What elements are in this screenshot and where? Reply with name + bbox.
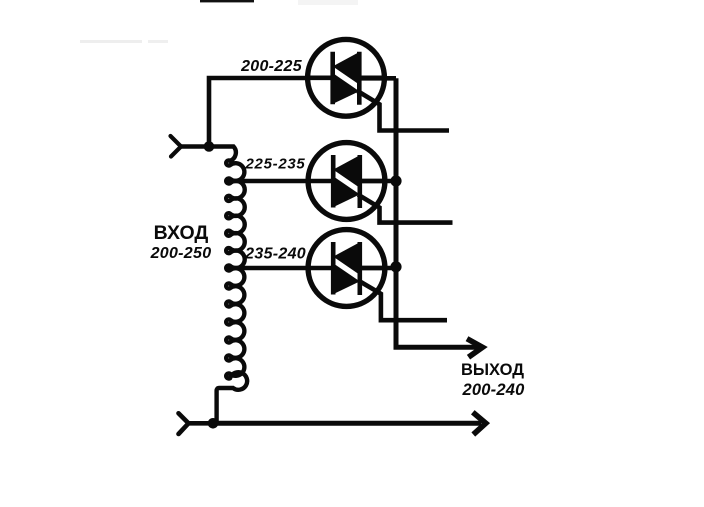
wire: node A up and right to triac VS1 (200-225 tap) (209, 78, 310, 147)
transformer winding (autotransformer T1) (209, 147, 247, 424)
svg-text:235-240: 235-240 (244, 246, 306, 263)
wire: bottom fork to node D (188, 421, 214, 426)
node C (junction dot bus/VS3) (390, 261, 401, 272)
output arrowhead (467, 339, 483, 358)
neutral output arrowhead (473, 412, 486, 434)
triac VS2 (308, 143, 385, 220)
faint watermark smudge (80, 40, 142, 43)
output bus wire (VS1/VS2/VS3 common output) (396, 78, 479, 347)
gate of VS1 (358, 91, 450, 131)
input terminal fork (top) (171, 136, 182, 157)
triac VS1 (308, 39, 385, 116)
svg-text:200-240: 200-240 (462, 381, 526, 399)
svg-text:200-250: 200-250 (150, 245, 212, 262)
input terminal fork (bottom) (179, 413, 189, 434)
svg-text:200-225: 200-225 (240, 58, 303, 75)
node B (junction dot bus/VS2) (390, 175, 401, 186)
tap wire 235-240 to triac VS3 (225, 266, 310, 270)
top edge artifact line (200, 0, 254, 2)
svg-text:ВЫХОД: ВЫХОД (461, 361, 524, 379)
tap wire 225-235 to triac VS2 (225, 179, 310, 183)
svg-text:ВХОД: ВХОД (154, 222, 209, 244)
wire: VS2 right terminal to bus (360, 179, 397, 184)
wire: top fork to node A (180, 144, 209, 148)
node A (junction dot, input top / winding top / tap 200-225) (204, 141, 215, 152)
gate of VS2 (358, 195, 453, 223)
wire: VS3 right terminal to bus (360, 266, 397, 271)
neutral wire: node D to output (common line) (213, 421, 481, 426)
svg-text:225-235: 225-235 (245, 156, 306, 173)
node D (junction dot, input bottom / winding bottom / neutral) (208, 418, 219, 429)
gate of VS3 (359, 281, 448, 321)
triac VS3 (308, 230, 385, 307)
wire: VS1 right terminal to output bus (359, 76, 396, 81)
faint smudge top right of center (298, 0, 358, 5)
